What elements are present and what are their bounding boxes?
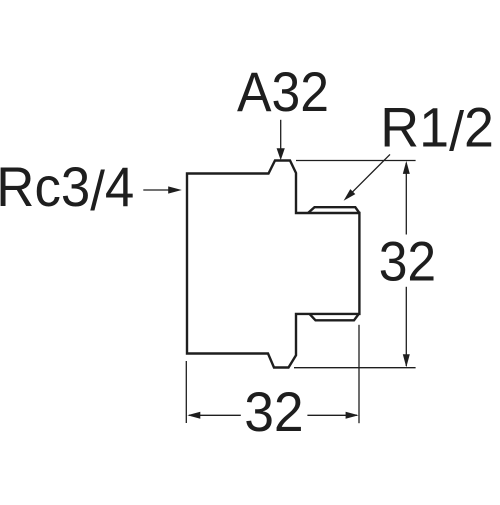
leader arrow Rc3/4 <box>143 186 182 193</box>
extension line bottom (y=367.7) <box>294 367 416 369</box>
extension line top (y=160.5) <box>296 160 416 162</box>
thread chamfer top <box>308 207 359 213</box>
svg-text:A32: A32 <box>237 60 329 123</box>
extension line bottom-right (x=359) <box>358 325 360 423</box>
svg-text:32: 32 <box>244 380 304 443</box>
svg-text:32: 32 <box>379 229 437 292</box>
leader arrow R1/2 <box>344 154 390 200</box>
horizontal dimension line 32 <box>187 412 358 419</box>
fitting body outline <box>187 161 359 368</box>
extension line bottom-left (x=186.3) <box>185 361 187 423</box>
thread chamfer bottom <box>310 314 359 320</box>
leader arrow A32 <box>277 120 285 161</box>
svg-text:Rc3/4: Rc3/4 <box>0 155 134 222</box>
svg-text:R1/2: R1/2 <box>380 96 494 163</box>
vertical dimension line 32 <box>403 161 410 367</box>
